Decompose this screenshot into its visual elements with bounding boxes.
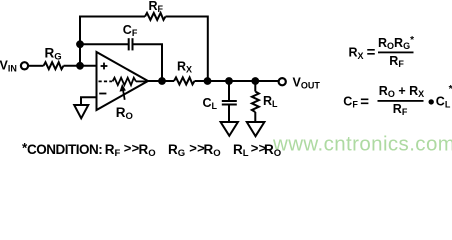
svg-text:RO + RX: RO + RX: [379, 84, 424, 99]
wire op-amp output: [148, 80, 174, 82]
node output: [158, 77, 166, 85]
wire VIN to RG: [28, 65, 44, 67]
wire RL branch: [254, 81, 256, 92]
resistor RL: [252, 92, 259, 113]
wire feedback riser: [79, 17, 81, 66]
svg-text:*: *: [449, 83, 452, 95]
node RF tap: [204, 77, 212, 85]
op-amp U1: [97, 52, 149, 110]
resistor RX: [174, 77, 195, 84]
ground (op-amp): [74, 105, 88, 118]
node RL tap: [251, 77, 259, 85]
equation RX fraction bar: [378, 52, 414, 54]
wire minus input to ground: [81, 97, 97, 105]
ground (RL): [247, 122, 265, 136]
node CF junction: [76, 40, 84, 48]
arrow to RO: [123, 89, 125, 100]
node input junction: [76, 62, 84, 70]
svg-text:>>: >>: [124, 141, 140, 156]
terminal VIN: [21, 62, 28, 69]
wire CL branch: [228, 81, 230, 100]
wire RX to VOUT: [195, 80, 279, 82]
op-amp plus input marking: [101, 65, 108, 67]
wire CL to ground: [228, 106, 230, 123]
equation CF bullet: [429, 99, 434, 104]
resistor RF: [145, 13, 166, 20]
equation CF fraction bar: [378, 100, 424, 102]
node CL tap: [225, 77, 233, 85]
wire RL to ground: [254, 112, 256, 122]
resistor RG: [44, 62, 64, 69]
wire RF right and drop to node: [166, 17, 208, 82]
svg-text:www.cntronics.com: www.cntronics.com: [272, 133, 452, 156]
wire CF left: [80, 43, 128, 45]
op-amp minus input marking: [99, 93, 106, 95]
resistor RO (internal, dashed lead): [99, 80, 113, 82]
wire CF right and drop to output node: [133, 44, 162, 81]
terminal VOUT: [279, 78, 286, 85]
capacitor CF: [128, 38, 130, 50]
capacitor CL: [222, 100, 237, 102]
svg-text:CONDITION:: CONDITION:: [27, 142, 102, 157]
wire RG to op-amp: [64, 65, 97, 67]
wire RF top left: [79, 16, 145, 18]
svg-text:=: =: [360, 93, 369, 110]
svg-text:=: =: [367, 44, 376, 61]
ground (CL): [221, 122, 238, 136]
